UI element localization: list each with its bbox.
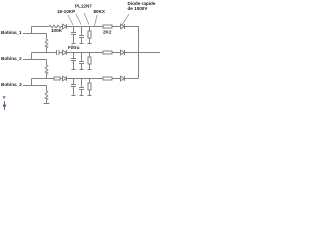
svg-text:19-10KP: 19-10KP	[57, 9, 75, 14]
svg-text:80KX: 80KX	[94, 9, 106, 14]
svg-text:Filtru: Filtru	[68, 45, 80, 50]
svg-text:Bobina_2: Bobina_2	[1, 56, 22, 61]
svg-text:Y: Y	[3, 95, 6, 100]
svg-text:2K2: 2K2	[103, 30, 112, 35]
svg-text:100K: 100K	[51, 28, 63, 33]
svg-text:de 1000V: de 1000V	[128, 6, 149, 11]
svg-text:PL12N7: PL12N7	[75, 4, 92, 9]
svg-text:Bobina_3: Bobina_3	[1, 82, 22, 87]
svg-text:Bobina_1: Bobina_1	[1, 30, 22, 35]
